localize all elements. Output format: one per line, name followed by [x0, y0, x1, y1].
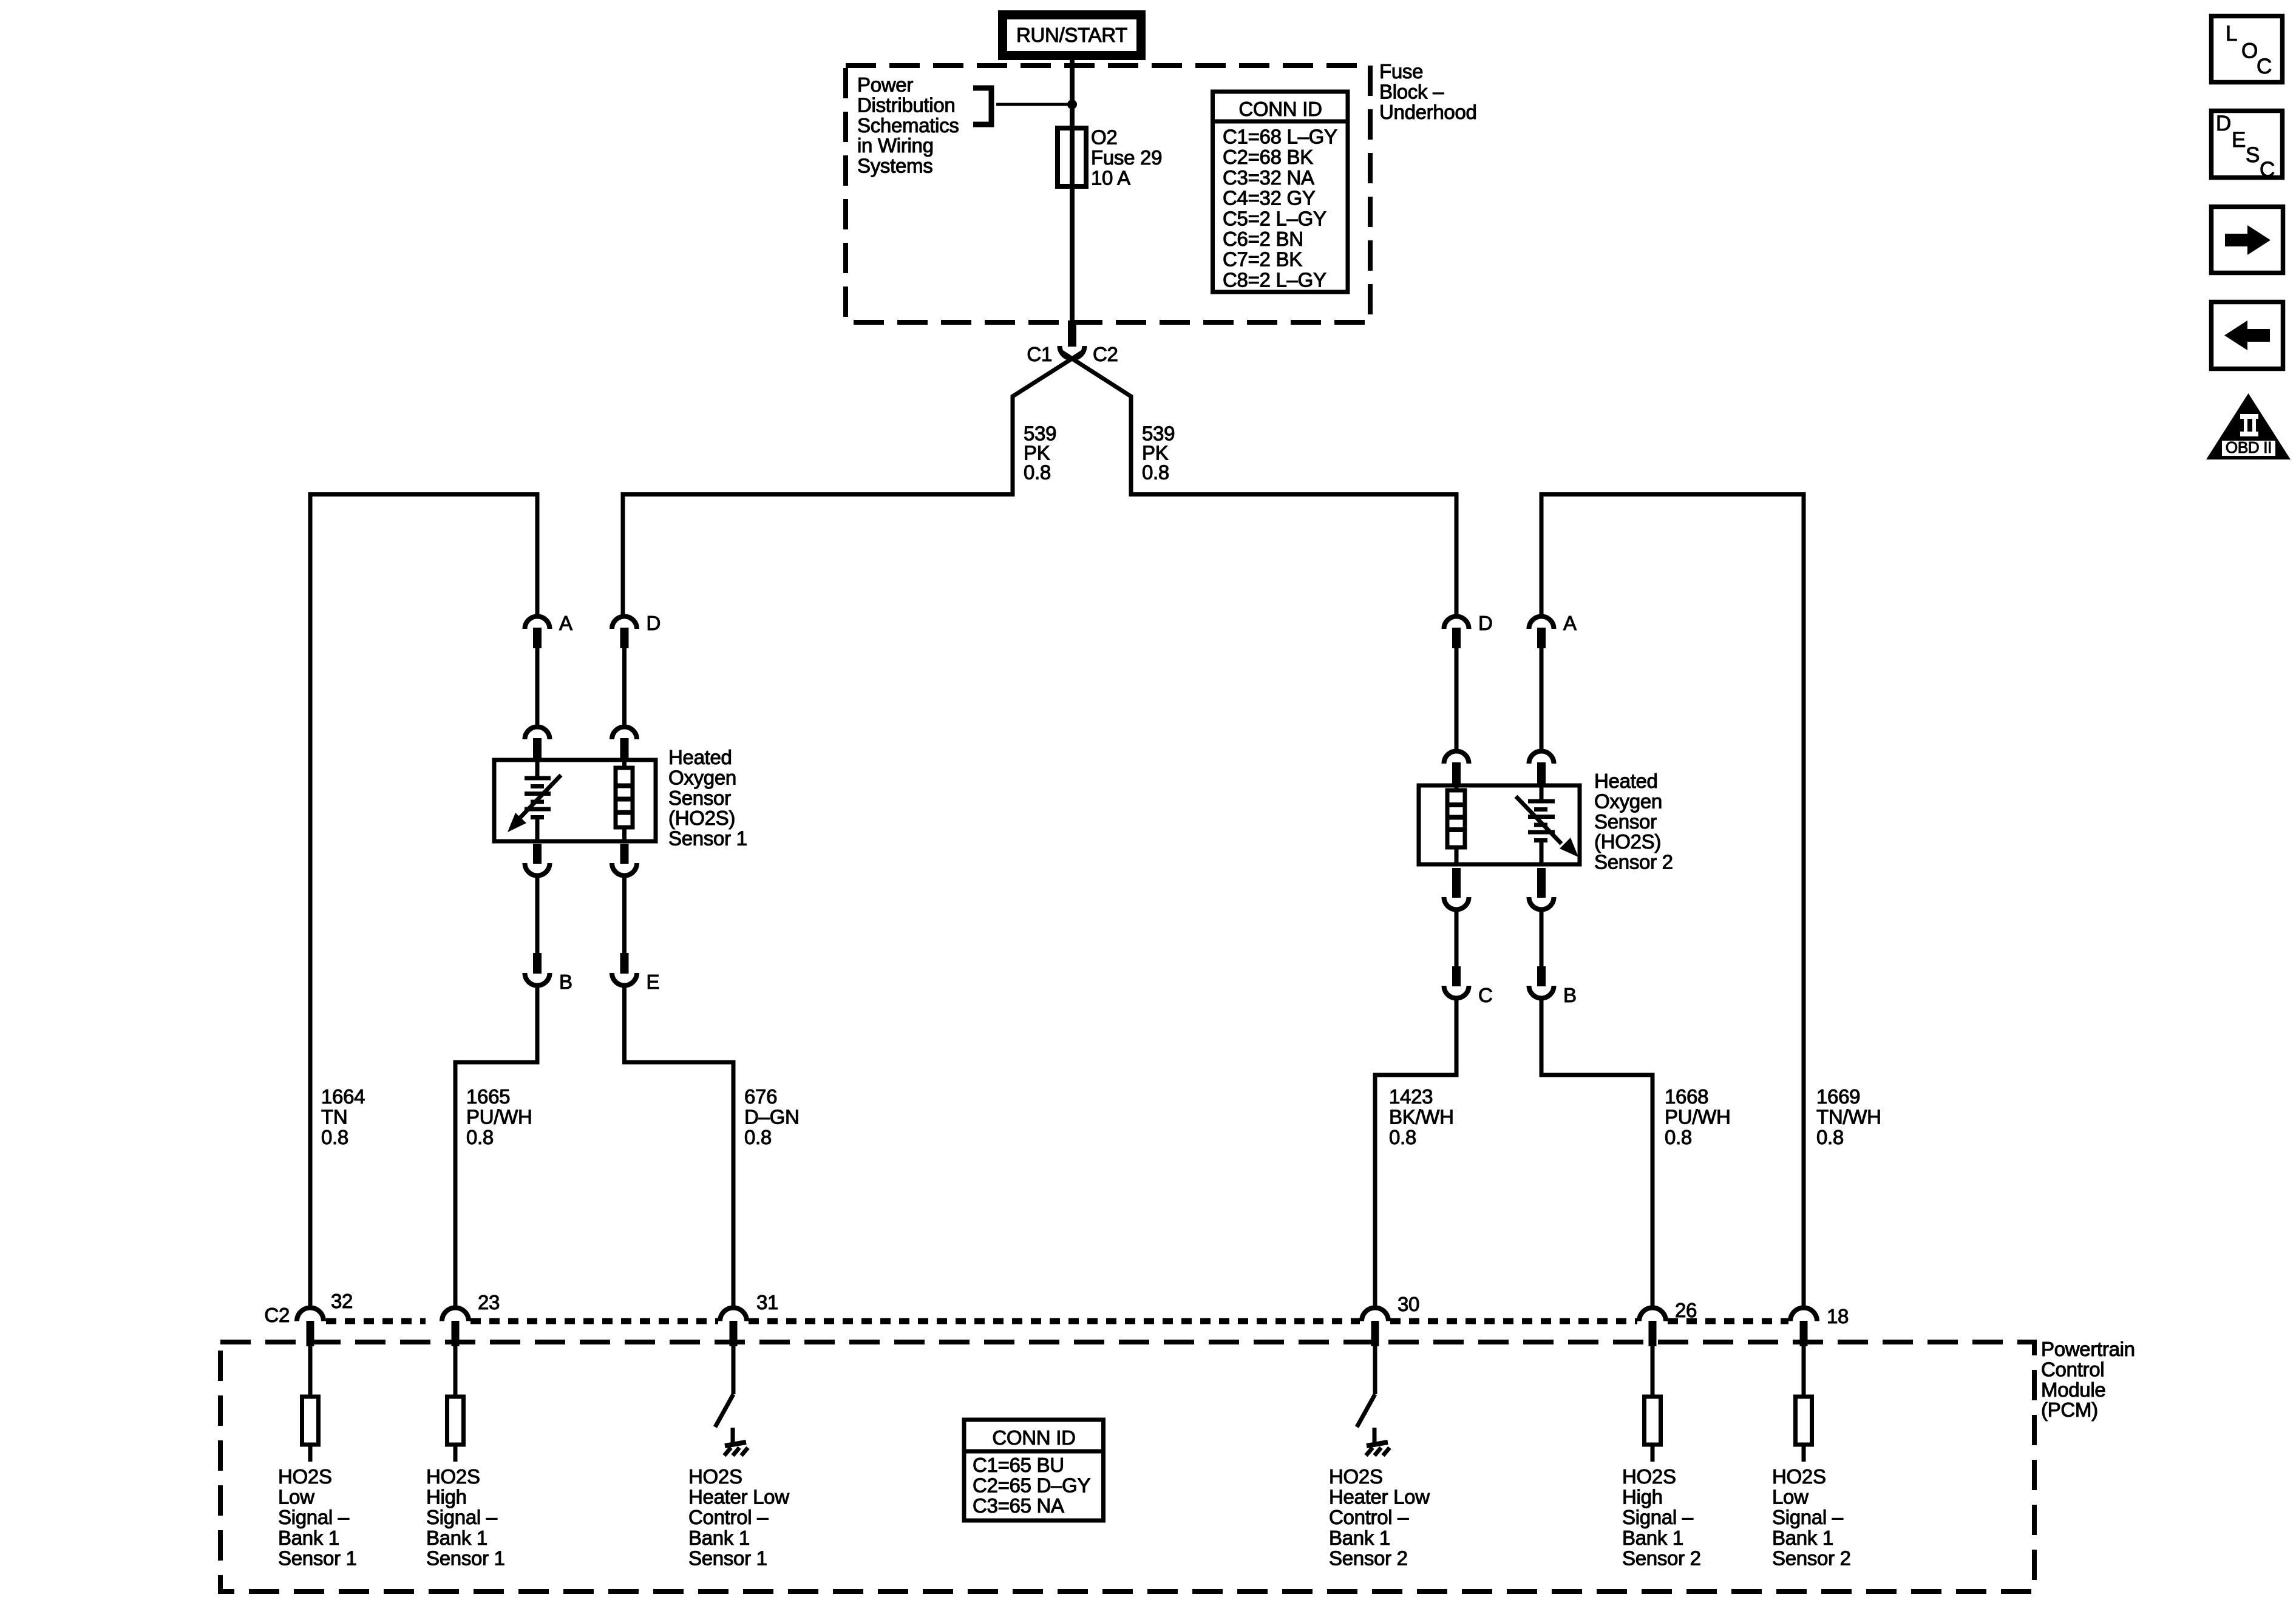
svg-text:Systems: Systems	[857, 155, 932, 177]
ground (PCM internal) at x=1208	[731, 1428, 735, 1444]
wire to connector C	[1455, 910, 1459, 966]
svg-text:Low: Low	[1772, 1486, 1809, 1508]
svg-text:0.8: 0.8	[1665, 1126, 1692, 1148]
svg-text:S: S	[2246, 143, 2260, 167]
svg-text:1668: 1668	[1665, 1085, 1708, 1108]
svg-text:E: E	[2232, 128, 2246, 152]
connector D (harness side, sensor 2)	[1444, 616, 1469, 629]
svg-text:HO2S: HO2S	[1329, 1465, 1383, 1488]
svg-text:C2: C2	[264, 1304, 290, 1326]
icon box LOC	[2212, 16, 2283, 83]
sensing element (variable battery) sensor 2	[1540, 785, 1544, 799]
fuse block dashed box (Fuse Block - Underhood)	[846, 66, 1370, 322]
svg-text:High: High	[426, 1486, 467, 1508]
svg-text:Block –: Block –	[1379, 80, 1444, 103]
svg-text:Signal –: Signal –	[278, 1506, 350, 1528]
heater element sensor 1	[622, 760, 627, 768]
svg-text:30: 30	[1398, 1293, 1419, 1315]
connector A (harness side, sensor 1)	[525, 616, 550, 629]
svg-text:HO2S: HO2S	[278, 1465, 332, 1488]
heated oxygen sensor HO2S sensor 1 box	[494, 760, 656, 841]
svg-text:TN/WH: TN/WH	[1816, 1105, 1881, 1128]
connector (sensor2 pigtail, pin D)	[1444, 751, 1469, 764]
wire 1664 TN: sensor1 pin A to PCM pin 32	[310, 495, 537, 1308]
svg-text:0.8: 0.8	[466, 1126, 494, 1148]
svg-text:Sensor 1: Sensor 1	[426, 1547, 505, 1569]
PCM internal circuit element at pin x=750	[453, 1346, 458, 1397]
svg-text:C1=65 BU: C1=65 BU	[973, 1454, 1064, 1476]
wire 1668 PU/WH: sensor2 B to PCM pin 26	[1541, 997, 1652, 1307]
PCM pin 18 connector	[1790, 1308, 1817, 1321]
svg-text:(HO2S): (HO2S)	[1594, 830, 1661, 853]
wire pin A to sensor pigtail	[535, 648, 540, 726]
svg-text:BK/WH: BK/WH	[1389, 1105, 1454, 1128]
svg-text:C2: C2	[1093, 343, 1118, 365]
svg-text:HO2S: HO2S	[426, 1465, 480, 1488]
svg-text:(HO2S): (HO2S)	[668, 807, 735, 829]
svg-text:Underhood: Underhood	[1379, 101, 1477, 123]
svg-text:Control –: Control –	[1329, 1506, 1409, 1528]
node: junction dot to power distribution tap	[1067, 100, 1077, 109]
svg-text:676: 676	[744, 1085, 777, 1108]
table CONN ID (fuse block)	[1213, 92, 1348, 292]
svg-text:Distribution: Distribution	[857, 93, 955, 116]
svg-text:OBD II: OBD II	[2226, 438, 2272, 456]
ground (PCM internal) at x=2265	[1373, 1428, 1377, 1444]
connector A (harness side, sensor 2)	[1529, 616, 1554, 629]
connector (sensor2 pigtail, pin B side)	[1537, 868, 1546, 898]
svg-text:Heated: Heated	[668, 746, 732, 768]
wire 676 D-GN: sensor1 E to PCM pin 31	[625, 985, 734, 1307]
svg-text:32: 32	[331, 1290, 353, 1312]
wire to connector B	[535, 876, 540, 953]
icon OBD II triangle	[2206, 393, 2291, 459]
svg-text:Schematics: Schematics	[857, 114, 959, 137]
svg-text:C: C	[2260, 158, 2275, 181]
wire 1669 TN/WH: sensor2 pin A to PCM pin 18	[1541, 495, 1804, 1308]
connector C1/C2 cup	[1060, 346, 1085, 358]
svg-text:C: C	[2257, 55, 2272, 78]
svg-text:C3=32 NA: C3=32 NA	[1223, 166, 1314, 189]
svg-text:D: D	[647, 612, 661, 634]
svg-text:10 A: 10 A	[1091, 167, 1130, 189]
svg-text:Control: Control	[2041, 1358, 2104, 1380]
svg-text:Sensor 2: Sensor 2	[1329, 1547, 1408, 1569]
svg-text:Fuse 29: Fuse 29	[1091, 146, 1162, 169]
svg-text:B: B	[559, 971, 572, 993]
svg-text:CONN ID: CONN ID	[1238, 98, 1322, 120]
connector (sensor2 pigtail, pin A)	[1529, 751, 1554, 764]
svg-text:C5=2 L–GY: C5=2 L–GY	[1223, 207, 1326, 229]
svg-text:C1: C1	[1027, 343, 1052, 365]
svg-text:Sensor 1: Sensor 1	[688, 1547, 767, 1569]
PCM internal circuit element at pin x=2971	[1802, 1346, 1806, 1397]
svg-text:Control –: Control –	[688, 1506, 769, 1528]
svg-text:C4=32 GY: C4=32 GY	[1223, 187, 1316, 209]
svg-text:HO2S: HO2S	[1622, 1465, 1676, 1488]
svg-text:TN: TN	[321, 1105, 347, 1128]
svg-text:CONN ID: CONN ID	[992, 1426, 1075, 1449]
svg-text:O2: O2	[1091, 126, 1117, 149]
svg-text:Heater Low: Heater Low	[688, 1486, 789, 1508]
PCM dashed box	[220, 1342, 2034, 1592]
svg-text:Sensor 2: Sensor 2	[1594, 851, 1673, 873]
svg-text:D: D	[2216, 112, 2231, 135]
svg-text:RUN/START: RUN/START	[1016, 24, 1127, 46]
table CONN ID (PCM)	[964, 1420, 1104, 1520]
svg-text:E: E	[647, 971, 660, 993]
icon box arrow right	[2212, 207, 2283, 273]
svg-text:Heated: Heated	[1594, 770, 1658, 792]
connector D (harness side, sensor 1)	[612, 616, 637, 629]
PCM pin 26 connector	[1639, 1308, 1666, 1321]
wire: tap to Power Distribution bracket	[996, 103, 1072, 106]
svg-text:D–GN: D–GN	[744, 1105, 800, 1128]
svg-text:Sensor 2: Sensor 2	[1622, 1547, 1701, 1569]
connector (sensor1 pigtail, pin D)	[612, 727, 637, 739]
svg-text:Signal –: Signal –	[1622, 1506, 1694, 1528]
power feed box RUN/START	[1003, 15, 1141, 56]
wire 539 PK right: crossover to sensor2 connector D	[1062, 352, 1456, 615]
svg-text:0.8: 0.8	[1816, 1126, 1844, 1148]
svg-text:C7=2 BK: C7=2 BK	[1223, 248, 1302, 271]
connector (sensor1 pigtail, pin B side)	[533, 844, 542, 864]
svg-text:Module: Module	[2041, 1378, 2105, 1401]
svg-text:A: A	[1563, 612, 1577, 634]
PCM pin 30 connector	[1362, 1308, 1388, 1321]
svg-text:26: 26	[1675, 1299, 1697, 1321]
svg-text:D: D	[1478, 612, 1493, 634]
svg-text:PU/WH: PU/WH	[466, 1105, 532, 1128]
wire pin A to sensor2 pigtail	[1540, 648, 1544, 750]
PCM internal driver switch at pin x=2265	[1373, 1346, 1377, 1394]
svg-text:Low: Low	[278, 1486, 314, 1508]
PCM internal circuit element at pin x=511	[308, 1346, 313, 1397]
icon box DESC	[2212, 111, 2283, 178]
svg-text:Sensor 2: Sensor 2	[1772, 1547, 1851, 1569]
svg-text:C2=65 D–GY: C2=65 D–GY	[973, 1474, 1090, 1496]
connector C1/C2 terminal bar	[1068, 320, 1076, 347]
svg-text:Oxygen: Oxygen	[1594, 790, 1662, 812]
svg-text:0.8: 0.8	[1142, 461, 1169, 484]
svg-text:1664: 1664	[321, 1085, 365, 1108]
svg-text:Fuse: Fuse	[1379, 60, 1423, 83]
svg-text:Sensor 1: Sensor 1	[278, 1547, 357, 1569]
svg-text:B: B	[1563, 984, 1577, 1006]
svg-text:L: L	[2226, 22, 2237, 46]
connector (sensor2 pigtail, pin C side)	[1452, 868, 1461, 898]
svg-text:C6=2 BN: C6=2 BN	[1223, 228, 1303, 250]
svg-text:Sensor: Sensor	[668, 787, 731, 809]
connector C (harness side, sensor 2)	[1452, 966, 1461, 986]
net C2 dotted connector line	[326, 1318, 426, 1324]
bracket: Power Distribution Schematics reference	[973, 88, 991, 124]
svg-text:C1=68 L–GY: C1=68 L–GY	[1223, 126, 1337, 148]
variable arrow (sensor 2)	[1516, 796, 1561, 844]
wire 539 PK left: crossover to sensor1 connector D	[623, 352, 1082, 615]
PCM pin 31 connector	[720, 1308, 747, 1321]
wire to connector E	[622, 876, 627, 953]
svg-text:(PCM): (PCM)	[2041, 1398, 2098, 1421]
svg-text:1669: 1669	[1816, 1085, 1860, 1108]
wire 1423 BK/WH: sensor2 C to PCM pin 30	[1375, 997, 1456, 1307]
svg-text:Bank 1: Bank 1	[1622, 1527, 1683, 1549]
fuse O2 Fuse 29 10 A	[1058, 128, 1086, 186]
PCM pin 23 connector	[442, 1308, 469, 1321]
svg-text:Powertrain: Powertrain	[2041, 1338, 2135, 1360]
connector B (harness side, sensor 1)	[533, 953, 542, 974]
wire to connector B (sensor 2)	[1540, 910, 1544, 966]
connector E (harness side, sensor 1)	[620, 953, 629, 974]
connector (sensor1 pigtail, pin E side)	[620, 844, 629, 864]
svg-text:1665: 1665	[466, 1085, 510, 1108]
PCM pin 32 connector	[297, 1308, 324, 1321]
svg-text:HO2S: HO2S	[1772, 1465, 1826, 1488]
icon box arrow left	[2212, 302, 2283, 369]
svg-text:PU/WH: PU/WH	[1665, 1105, 1731, 1128]
PCM internal circuit element at pin x=2722	[1651, 1346, 1655, 1397]
svg-text:0.8: 0.8	[321, 1126, 348, 1148]
svg-text:18: 18	[1827, 1305, 1849, 1327]
svg-text:A: A	[559, 612, 572, 634]
wire pin D to sensor2 pigtail	[1455, 648, 1459, 750]
connector (sensor1 pigtail, pin A)	[525, 727, 550, 739]
heated oxygen sensor HO2S sensor 2 box	[1419, 785, 1580, 864]
wire: RUN/START to fuse and connector C1/C2	[1070, 58, 1075, 322]
svg-text:Signal –: Signal –	[426, 1506, 498, 1528]
svg-text:Signal –: Signal –	[1772, 1506, 1844, 1528]
svg-text:0.8: 0.8	[1389, 1126, 1416, 1148]
sensing element (variable battery) sensor 1	[535, 760, 540, 776]
svg-text:C3=65 NA: C3=65 NA	[973, 1494, 1064, 1517]
svg-text:in Wiring: in Wiring	[857, 134, 934, 157]
svg-text:Heater Low: Heater Low	[1329, 1486, 1430, 1508]
svg-text:0.8: 0.8	[744, 1126, 772, 1148]
svg-text:Oxygen: Oxygen	[668, 766, 736, 788]
svg-text:Bank 1: Bank 1	[278, 1527, 339, 1549]
svg-text:Sensor: Sensor	[1594, 810, 1657, 833]
svg-text:C8=2 L–GY: C8=2 L–GY	[1223, 268, 1326, 291]
svg-text:23: 23	[478, 1291, 500, 1314]
svg-text:Bank 1: Bank 1	[688, 1527, 750, 1549]
svg-text:Power: Power	[857, 73, 913, 96]
svg-text:1423: 1423	[1389, 1085, 1433, 1108]
wire pin D to sensor pigtail	[622, 648, 627, 726]
svg-text:HO2S: HO2S	[688, 1465, 742, 1488]
svg-text:C2=68 BK: C2=68 BK	[1223, 146, 1313, 168]
svg-text:0.8: 0.8	[1024, 461, 1051, 484]
heater element sensor 2	[1455, 785, 1459, 790]
svg-text:Bank 1: Bank 1	[1329, 1527, 1390, 1549]
svg-text:O: O	[2241, 39, 2258, 63]
svg-text:31: 31	[756, 1291, 778, 1314]
connector B (harness side, sensor 2)	[1537, 966, 1546, 986]
svg-text:High: High	[1622, 1486, 1663, 1508]
svg-text:C: C	[1478, 984, 1493, 1006]
PCM internal driver switch at pin x=1208	[732, 1346, 736, 1394]
svg-text:Sensor 1: Sensor 1	[668, 827, 747, 850]
svg-text:Bank 1: Bank 1	[426, 1527, 487, 1549]
wire 1665 PU/WH: sensor1 B to PCM pin 23	[455, 985, 537, 1307]
variable arrow (sensor 1)	[517, 775, 561, 821]
svg-text:Bank 1: Bank 1	[1772, 1527, 1833, 1549]
